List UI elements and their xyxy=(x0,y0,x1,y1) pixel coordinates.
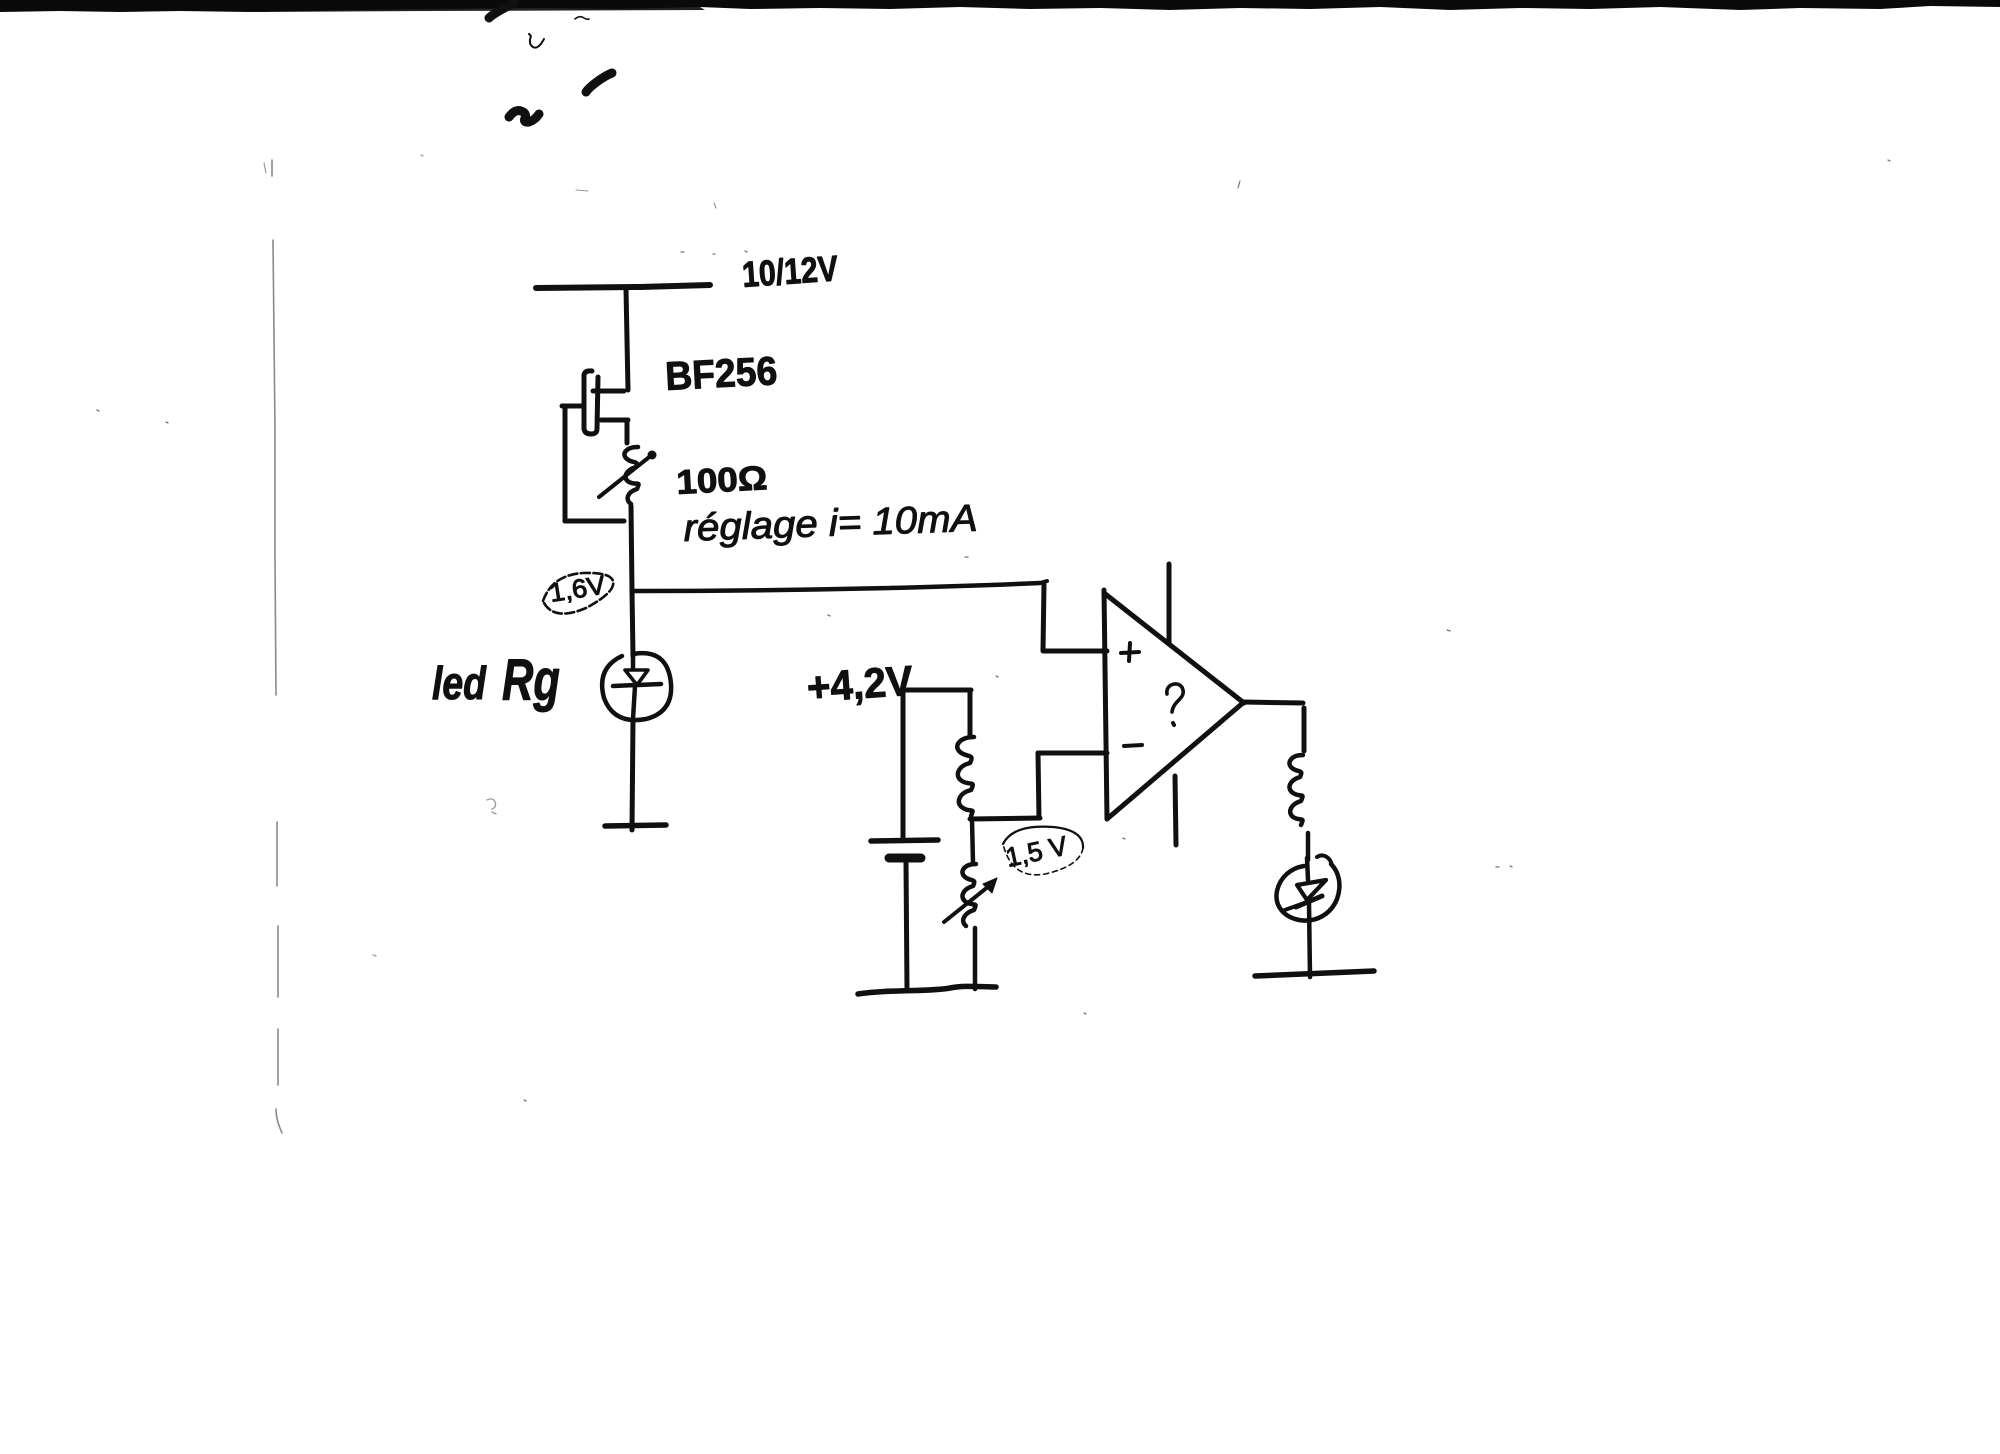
svg-text:BF256: BF256 xyxy=(664,349,778,399)
op-amp V- power line xyxy=(1175,776,1176,845)
wire: op-amp output xyxy=(1243,702,1303,703)
resistor R1 (divider top) xyxy=(968,690,973,737)
wire: battery to ground xyxy=(906,862,907,990)
wire: node down to LED D1 xyxy=(632,591,633,656)
wire: +4.2V rail top of divider xyxy=(903,688,971,693)
scan artifact: faint specks xyxy=(97,160,1890,1101)
resistor R2 (output) xyxy=(1289,755,1303,825)
node 1,5V circled (dotted) xyxy=(1003,827,1083,875)
resistor RV2 variable (divider bottom) xyxy=(972,820,973,863)
scan artifact: top black bar xyxy=(0,0,2000,12)
op-amp - input marking xyxy=(1124,745,1142,746)
ground (under LED D1) xyxy=(605,825,666,826)
scan artifact: bold squiggle xyxy=(509,111,539,123)
wire: gate feedback loop xyxy=(565,406,624,521)
wire: RV2 to ground xyxy=(973,928,978,989)
wire: divider tap to op-amp - input xyxy=(970,818,1040,819)
wire: rail to JFET drain xyxy=(626,289,628,390)
scan artifact: pen slash under bar xyxy=(489,3,514,18)
LED D1 xyxy=(602,653,671,720)
svg-text:+4,2V: +4,2V xyxy=(805,657,914,711)
battery B1 xyxy=(871,840,938,841)
power rail 10/12V xyxy=(536,285,710,288)
scan artifact: slash 2 xyxy=(586,73,612,92)
op-amp U1 xyxy=(1104,590,1244,819)
scan artifact: faint left vertical line xyxy=(272,160,282,1133)
transistor Q1 BF256 (JFET) xyxy=(562,371,628,443)
wire: RV1 to node xyxy=(631,506,632,591)
svg-text:10/12V: 10/12V xyxy=(741,247,840,295)
wire: R2 to LED D2 xyxy=(1306,833,1311,860)
svg-text:100Ω: 100Ω xyxy=(675,459,768,502)
wire: node to op-amp + input xyxy=(633,583,1040,591)
resistor RV1 100 ohm variable (source) xyxy=(599,447,648,504)
op-amp + input marking xyxy=(1121,643,1139,661)
scan artifact: small curl xyxy=(575,17,589,20)
svg-text:led: led xyxy=(432,657,487,709)
node 1,6V circled xyxy=(543,569,613,613)
op-amp V+ power line xyxy=(1167,564,1172,643)
LED D2 xyxy=(1276,855,1339,977)
wire: LED D1 to ground xyxy=(632,719,633,830)
op-amp ? marking xyxy=(1167,684,1183,712)
svg-text:Rg: Rg xyxy=(502,648,560,713)
ground (middle) xyxy=(858,986,996,994)
ground (right, under LED D2) xyxy=(1255,971,1374,976)
scan artifact: v mark xyxy=(530,36,544,48)
